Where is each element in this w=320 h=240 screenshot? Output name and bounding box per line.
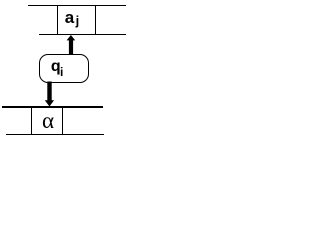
top tape bottom line <box>39 34 126 35</box>
tape symbol subscript j <box>76 14 80 27</box>
bottom tape top line <box>2 106 103 107</box>
top tape top line <box>28 5 126 6</box>
bottom tape bottom line <box>6 134 104 135</box>
top tape cell divider left <box>57 5 58 36</box>
bottom tape cell divider left <box>31 106 32 135</box>
top tape cell divider right <box>95 5 96 36</box>
write head arrow (down) <box>0 0 129 141</box>
read head arrow (up) <box>0 0 129 141</box>
tape symbol a <box>65 9 74 26</box>
state bubble q_i <box>39 54 88 82</box>
state label q <box>51 59 61 75</box>
tape symbol alpha <box>42 109 54 132</box>
state label subscript i <box>60 66 63 78</box>
bottom tape cell divider right <box>62 106 63 135</box>
